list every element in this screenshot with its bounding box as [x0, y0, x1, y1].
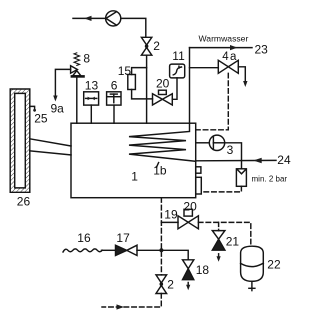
svg-text:1: 1 — [131, 170, 138, 184]
pressure reducer min 2 bar — [236, 169, 246, 187]
wire dashed reducer to boiler tab — [202, 186, 242, 192]
wire cold water line 24 with arrow — [196, 159, 276, 161]
svg-text:2: 2 — [153, 39, 160, 53]
svg-text:6: 6 — [111, 78, 118, 92]
svg-text:18: 18 — [196, 263, 210, 277]
radiator 26 (hatched walls) — [10, 89, 30, 192]
sensor box 13 — [84, 92, 99, 105]
svg-text:2: 2 — [167, 278, 174, 292]
pump 3 (circle) — [209, 135, 224, 150]
fill valve 17 — [116, 245, 127, 255]
wire to valve 4a — [190, 67, 219, 69]
wire main riser — [146, 55, 148, 123]
wire 6 to boiler — [113, 105, 115, 123]
wire dashed drain column — [160, 198, 162, 275]
svg-text:22: 22 — [267, 257, 281, 271]
node junction on fill pipe — [159, 248, 163, 252]
svg-text:1b: 1b — [153, 164, 167, 178]
svg-text:min. 2 bar: min. 2 bar — [252, 174, 288, 183]
drain valve 21 — [212, 231, 225, 240]
boiler tank 1 — [71, 123, 196, 198]
svg-text:13: 13 — [85, 78, 99, 92]
svg-text:20: 20 — [183, 200, 197, 214]
drain valve 18 — [183, 260, 194, 269]
wire dashed sensor line 4a to boiler — [196, 73, 228, 130]
svg-text:9a: 9a — [51, 102, 65, 116]
motor valve 20 (top) — [153, 94, 163, 105]
svg-text:Warmwasser: Warmwasser — [199, 33, 249, 43]
vent 25 stub — [30, 106, 35, 109]
wire dashed valve 20 to vessel — [198, 222, 250, 244]
svg-text:24: 24 — [277, 153, 291, 167]
wire pump suction line with left arrow — [73, 17, 106, 19]
svg-text:26: 26 — [17, 194, 31, 208]
wire 13 to boiler — [90, 105, 92, 123]
expansion vessel 22 — [241, 246, 264, 281]
svg-text:3: 3 — [227, 143, 234, 157]
wire 15 bottom to valve 20 — [132, 90, 153, 99]
svg-text:20: 20 — [156, 77, 170, 91]
wire pump to valve 2 — [121, 18, 146, 37]
wire hot water riser — [189, 48, 191, 124]
sensor 15 (rect) — [128, 75, 136, 90]
boiler connection tab lower — [196, 177, 202, 194]
wire 15 top to main riser — [132, 68, 147, 75]
svg-text:4a: 4a — [222, 51, 237, 63]
wire safety valve outlet to 9a — [55, 69, 70, 98]
thermostat box 6 — [107, 92, 121, 105]
safety valve 8 spring — [74, 53, 80, 66]
valve 2 (top) — [141, 37, 151, 45]
svg-text:21: 21 — [226, 235, 240, 249]
wire drain arrow below 18 — [187, 283, 189, 288]
sensor box 11 — [170, 64, 185, 78]
heat exchanger coil 1b — [129, 123, 196, 161]
motor valve 20 (bottom) — [178, 216, 188, 229]
wire dashed stub to valve 21 — [218, 222, 220, 230]
svg-text:25: 25 — [34, 112, 48, 126]
wire valve 20 to box 11 — [172, 78, 177, 99]
drain valve 2 (bottom) — [156, 275, 167, 283]
svg-text:16: 16 — [77, 231, 91, 245]
valve 4a — [218, 60, 228, 73]
wire drain arrow below 21 — [218, 254, 220, 259]
svg-text:17: 17 — [116, 231, 130, 245]
svg-text:19: 19 — [164, 208, 178, 222]
wire below valve 8 into boiler — [76, 78, 78, 124]
pipe radiator to boiler (flow) — [30, 139, 71, 146]
pump P (circle with triangle) — [106, 11, 121, 26]
svg-text:8: 8 — [83, 51, 90, 65]
svg-text:11: 11 — [172, 49, 185, 63]
wire pump 3 to cold water node — [225, 143, 242, 169]
pipe radiator to boiler (return) — [30, 151, 71, 155]
svg-text:15: 15 — [118, 64, 132, 78]
boiler connection tab upper — [196, 167, 201, 173]
svg-text:23: 23 — [255, 43, 269, 57]
safety valve 8 body — [71, 66, 78, 74]
wire 4a outlet stub with down arrow — [238, 67, 245, 84]
wire fill pipe to valve 18 — [137, 250, 188, 259]
wire branch 19 — [161, 221, 178, 223]
wire boiler to pump 3 — [196, 142, 209, 144]
wire dashed bottom drain line with arrow — [102, 294, 161, 308]
supply pipe 16 (wavy) — [63, 249, 102, 252]
vessel fill stem — [251, 281, 253, 290]
wire Warmwasser line with arrow — [190, 47, 253, 49]
